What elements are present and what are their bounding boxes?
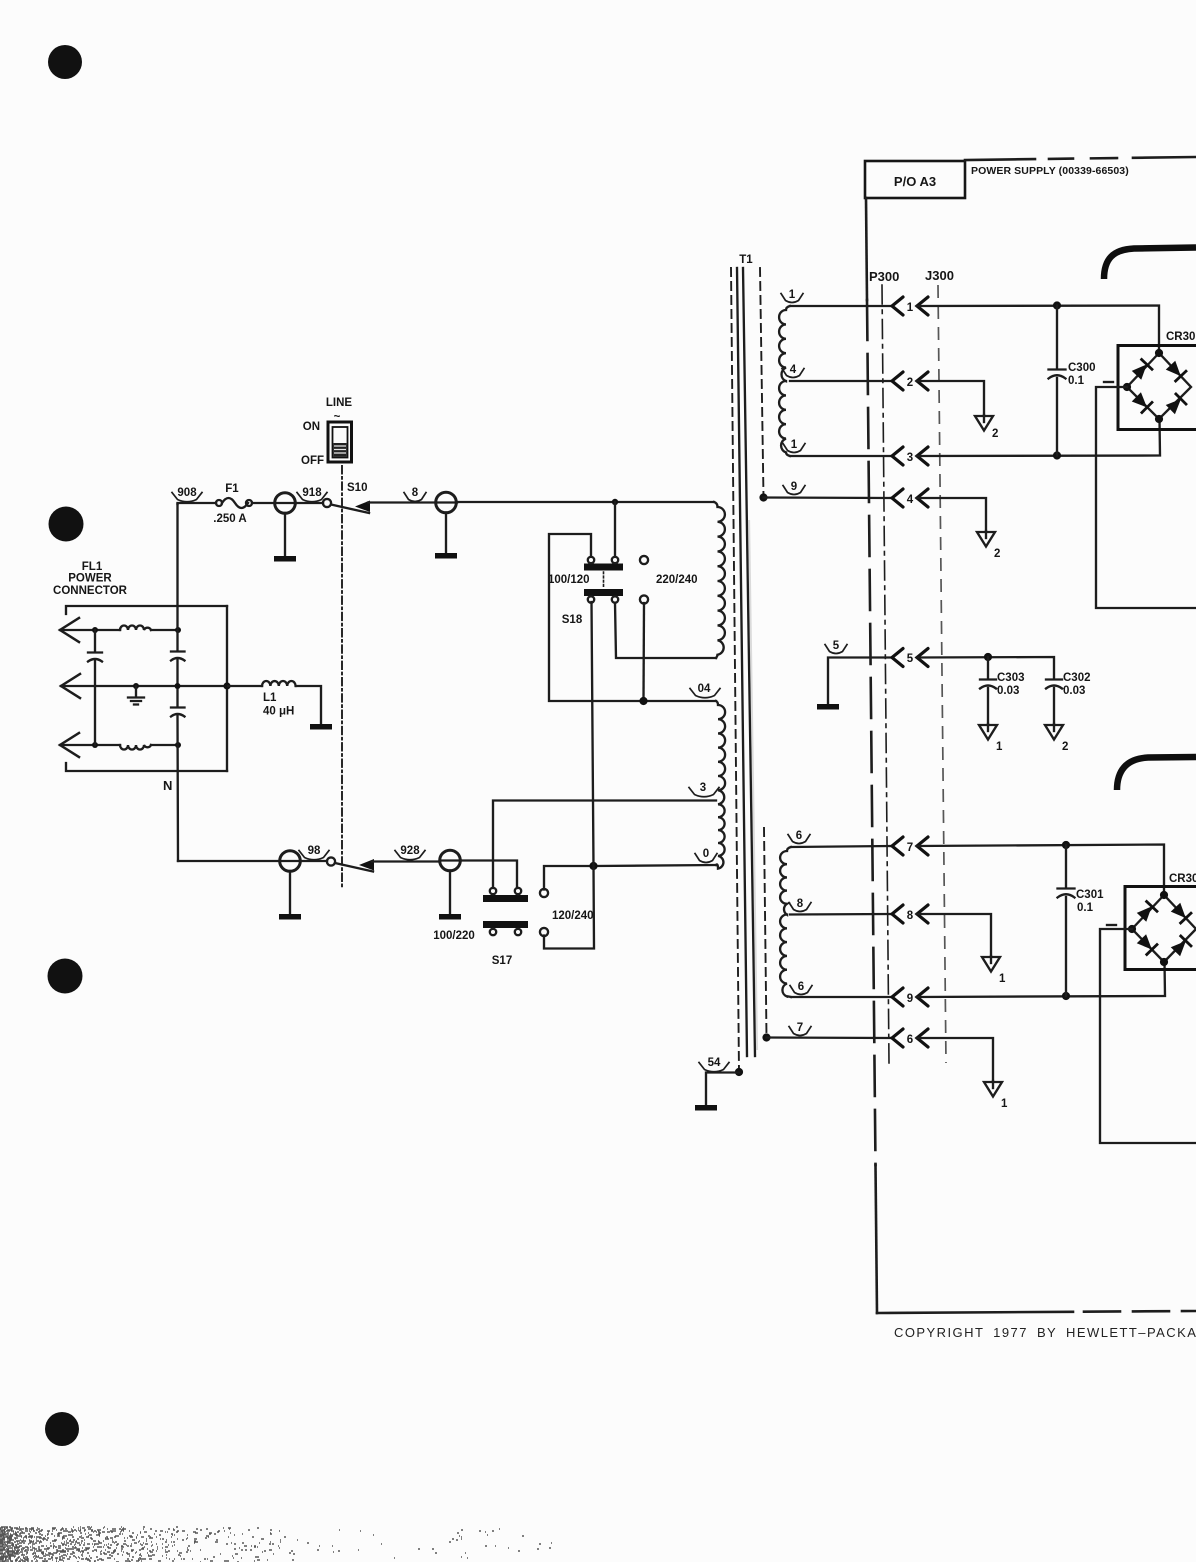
T1 secondary winding lower (6-8-6) — [780, 847, 791, 997]
svg-text:928: 928 — [400, 845, 420, 857]
ground bar terminal D — [439, 914, 461, 920]
inductor L1 40uH — [262, 681, 296, 686]
board border bottom dashed — [877, 1311, 1196, 1313]
120/240 contact pair — [540, 889, 548, 897]
diode CR301 upper-right — [1169, 901, 1192, 924]
ground bar 54 — [695, 1105, 717, 1111]
inductor FL1 top — [120, 626, 151, 631]
svg-text:LINE: LINE — [326, 397, 353, 409]
node shield/7 wire — [762, 1033, 770, 1041]
pin 6 — [892, 1029, 903, 1047]
svg-text:7: 7 — [907, 842, 913, 854]
svg-text:P/O A3: P/O A3 — [894, 174, 936, 189]
S17 top contacts — [490, 888, 496, 894]
wire pin1 to bridge — [917, 306, 1159, 354]
chassis ground C303 — [979, 724, 997, 740]
capacitor C302 — [1053, 688, 1055, 725]
svg-text:9: 9 — [791, 481, 797, 493]
svg-text:8: 8 — [907, 910, 914, 922]
fuse F1 .250A — [216, 500, 222, 506]
ground bar 5 — [817, 704, 839, 710]
terminal stud 918-left — [275, 493, 296, 514]
diode CR302 lower-left — [1130, 391, 1153, 414]
S10 upper fixed contact — [323, 499, 331, 507]
wire terminal D to S17 — [461, 861, 517, 889]
wire pin8 to chassis gnd — [917, 914, 991, 957]
svg-text:0.03: 0.03 — [1063, 685, 1085, 697]
wire sec2 tap8 to pin8 — [790, 913, 892, 916]
node line2/FL1 box edge — [223, 682, 230, 689]
capacitor C303 — [987, 657, 989, 725]
wire pin9 to bridge CR301 bottom — [917, 962, 1165, 997]
minus sign CR301 — [1107, 924, 1116, 926]
wire F1 to terminal — [252, 502, 275, 504]
pin 8 — [892, 905, 903, 923]
T1 core line left — [737, 268, 747, 1056]
svg-text:0.03: 0.03 — [997, 685, 1019, 697]
S18 bottom contacts — [588, 596, 594, 602]
svg-text:S18: S18 — [562, 614, 583, 626]
node line2/bus — [175, 683, 181, 689]
svg-text:CR30: CR30 — [1169, 873, 1196, 885]
svg-text:3: 3 — [700, 782, 706, 794]
T1 core line right — [743, 268, 755, 1056]
S18 mechanical link dotted — [603, 572, 605, 588]
chassis ground C302 — [1045, 724, 1063, 740]
220/240 contact pair S18 — [640, 556, 648, 564]
S18 top contacts — [588, 557, 594, 563]
S10 upper arrowhead — [355, 501, 370, 513]
svg-text:908: 908 — [177, 487, 197, 499]
chassis ground pin2 — [975, 415, 993, 431]
T1 shield dashed right lower — [764, 828, 767, 1037]
ground bar terminal C — [279, 914, 301, 920]
punch hole top-left — [48, 45, 82, 79]
diode CR301 lower-right — [1169, 935, 1192, 958]
punch hole 2 — [49, 507, 84, 542]
svg-text:1: 1 — [791, 439, 798, 451]
node CR301 top vertex — [1160, 891, 1168, 899]
capacitor C300 — [1056, 306, 1058, 456]
wire 9 to pin4 — [764, 496, 893, 499]
wire 0 line — [594, 865, 716, 866]
capacitor branch left vertical — [94, 630, 96, 745]
ground bar L1 — [310, 724, 332, 730]
node C301 top — [1062, 841, 1070, 849]
wire CR302 minus out — [1096, 387, 1196, 608]
wire line3 — [60, 744, 178, 746]
svg-text:6: 6 — [798, 981, 804, 993]
svg-text:98: 98 — [308, 845, 321, 857]
wire S10 to terminal B — [368, 501, 436, 503]
S10 upper blade — [331, 505, 369, 514]
chassis ground pin8 — [982, 956, 1000, 972]
svg-text:04: 04 — [698, 683, 711, 695]
earth ground FL1 — [128, 686, 144, 705]
terminal stud 98-left — [280, 851, 301, 872]
svg-text:100/120: 100/120 — [548, 574, 590, 586]
terminal B stem — [445, 513, 447, 555]
board border top dashed — [965, 157, 1196, 160]
node CR301 left vertex — [1128, 925, 1136, 933]
FL1 pin arrow line 3 — [60, 733, 79, 757]
node earth gnd — [133, 683, 139, 689]
T1 shield dashed left — [731, 268, 739, 1072]
svg-text:8: 8 — [797, 898, 804, 910]
wire S17 left contact up to 3-wire — [493, 801, 716, 889]
main left bus vertical — [176, 504, 179, 861]
bottom line: bus corner to terminal C — [178, 860, 279, 862]
svg-text:0.1: 0.1 — [1068, 375, 1085, 387]
punch hole 3 — [48, 959, 83, 994]
node CR302 top vertex — [1155, 349, 1163, 357]
node CR302 bottom vertex — [1155, 415, 1163, 423]
svg-text:CONNECTOR: CONNECTOR — [53, 585, 128, 597]
pin 7 — [892, 837, 903, 855]
svg-text:3: 3 — [907, 452, 913, 464]
svg-text:C303: C303 — [997, 672, 1025, 684]
switch S17 bottom bar — [483, 921, 528, 928]
wire sec2 to pin7 — [791, 846, 892, 847]
diode CR302 upper-right — [1164, 359, 1187, 382]
pin 5 — [892, 649, 903, 667]
CR301 diamond — [1132, 895, 1196, 962]
node 04/220-240 — [639, 697, 647, 705]
node C301 bottom — [1062, 992, 1070, 1000]
wire sec1 end to pin3 — [790, 455, 892, 457]
switch S18 bottom bar — [584, 589, 623, 596]
wire through terminal — [275, 502, 296, 504]
T1 secondary winding upper (1-4-1) — [779, 306, 790, 456]
ground bar terminal A — [274, 556, 296, 562]
terminal C stem — [289, 871, 291, 915]
svg-text:2: 2 — [907, 377, 913, 389]
svg-text:0.1: 0.1 — [1077, 902, 1094, 914]
T1 primary winding 1 (02) — [714, 502, 725, 658]
pin 4 — [892, 489, 903, 507]
wire S18 top-right to 02 node — [614, 502, 616, 557]
node line3/cap branch — [92, 742, 98, 748]
svg-text:.250 A: .250 A — [213, 513, 246, 525]
capacitor bus upper — [171, 652, 185, 661]
thick cable arc lower right — [1117, 757, 1196, 790]
svg-text:2: 2 — [992, 428, 998, 440]
S10 lower blade — [335, 863, 373, 872]
wire pin5 to caps — [917, 657, 1054, 678]
S10 lower fixed contact — [327, 857, 335, 865]
svg-text:0: 0 — [703, 848, 709, 860]
svg-text:8: 8 — [412, 487, 419, 499]
svg-text:1: 1 — [999, 973, 1006, 985]
T1 primary winding 2 (04-3-0) — [716, 701, 725, 869]
svg-text:S17: S17 — [492, 955, 512, 967]
switch S17 top bar — [483, 895, 528, 902]
S10 boundary dash-dot line — [341, 466, 343, 888]
wire 54 to ground — [706, 1073, 739, 1107]
S17 bottom contacts — [490, 929, 496, 935]
capacitor bus lower — [171, 708, 185, 717]
inductor FL1 bottom — [120, 745, 151, 750]
terminal stud 8 — [436, 492, 457, 513]
svg-text:P300: P300 — [869, 269, 899, 284]
bridge rectifier CR302 package box — [1118, 346, 1196, 430]
wire line2 — [61, 685, 228, 687]
svg-text:OFF: OFF — [301, 455, 324, 467]
node CR301 bottom vertex — [1160, 958, 1168, 966]
chassis ground pin4 — [977, 531, 995, 547]
terminal stem — [284, 513, 286, 557]
node line1/cap branch — [92, 627, 98, 633]
wire line2 to L1 — [228, 685, 262, 687]
svg-text:FL1: FL1 — [82, 561, 103, 573]
pin 3 — [892, 447, 903, 465]
terminal stud 928 — [440, 850, 461, 871]
T1 shield dashed right upper — [760, 268, 764, 497]
wire pin6 to chassis gnd — [917, 1038, 993, 1082]
wire S18 top-left loop to 04 wire — [549, 534, 716, 701]
LINE toggle switch icon — [328, 422, 352, 462]
node C300 top — [1053, 301, 1061, 309]
svg-text:220/240: 220/240 — [656, 574, 698, 586]
svg-text:N: N — [163, 778, 172, 793]
node S18 tap on 02 — [612, 499, 618, 505]
FL1 box bracket — [66, 606, 227, 771]
wire 220/240 bottom contact down to 04 wire — [642, 603, 645, 701]
bridge rectifier CR301 package box — [1125, 887, 1196, 970]
P/O A3 box — [865, 161, 965, 198]
FL1 pin arrow line 2 — [61, 674, 80, 698]
board border left: solid then long-dash — [866, 198, 867, 300]
capacitor C301 — [1065, 845, 1067, 996]
svg-text:T1: T1 — [739, 254, 753, 266]
svg-text:918: 918 — [302, 487, 322, 499]
wire sec2 end to pin9 — [791, 996, 892, 998]
wire terminal C to S10 lower contact — [301, 860, 327, 862]
diode CR301 upper-left — [1135, 901, 1158, 924]
wire S18 bottom-left long vertical — [544, 602, 594, 949]
wire sec1 to pin1 — [790, 305, 892, 307]
node shield/9 wire — [759, 493, 767, 501]
svg-text:4: 4 — [790, 364, 797, 376]
node line3/bus — [175, 742, 181, 748]
svg-text:C300: C300 — [1068, 362, 1096, 374]
wire 5 ground stub — [828, 658, 892, 705]
svg-text:1: 1 — [1001, 1098, 1008, 1110]
wire line1 — [60, 629, 178, 631]
punch hole 4 — [45, 1412, 79, 1446]
pin 2 — [892, 372, 903, 390]
wire S10 lower to terminal D — [372, 860, 440, 862]
svg-text:9: 9 — [907, 993, 913, 1005]
wire 120/240 top contact to 0-wire — [544, 866, 594, 890]
terminal D stem — [449, 871, 451, 916]
svg-text:S10: S10 — [347, 482, 367, 494]
svg-text:1: 1 — [996, 741, 1003, 753]
wire pin3 to bridge bottom — [917, 419, 1160, 456]
diode CR301 lower-left — [1135, 933, 1158, 956]
T1 core scan smear — [749, 520, 757, 1050]
wire sec1 tap4 to pin2 — [790, 380, 892, 382]
svg-text:COPYRIGHT 1977 BY HEWLETT–PACK: COPYRIGHT 1977 BY HEWLETT–PACKA — [894, 1325, 1196, 1340]
svg-text:J300: J300 — [925, 268, 954, 283]
svg-text:6: 6 — [907, 1034, 913, 1046]
svg-text:5: 5 — [833, 640, 840, 652]
wire CR301 minus out — [1100, 929, 1196, 1143]
diode CR302 upper-left — [1130, 359, 1153, 382]
svg-text:6: 6 — [796, 830, 802, 842]
svg-text:POWER: POWER — [68, 573, 112, 585]
P300 dash-dot line — [882, 285, 889, 1063]
svg-text:2: 2 — [1062, 741, 1068, 753]
wire through terminal D — [440, 859, 461, 861]
svg-text:1: 1 — [789, 289, 796, 301]
svg-text:C302: C302 — [1063, 672, 1091, 684]
svg-text:2: 2 — [994, 548, 1000, 560]
svg-text:54: 54 — [708, 1057, 721, 1069]
svg-text:POWER SUPPLY (00339-66503): POWER SUPPLY (00339-66503) — [971, 165, 1129, 177]
diode CR302 lower-right — [1164, 393, 1187, 416]
svg-text:L1: L1 — [263, 692, 277, 704]
wire L1 to ground — [296, 686, 321, 725]
node C300 bottom — [1053, 451, 1061, 459]
ground bar terminal B — [435, 553, 457, 559]
wire 908 corner to F1 — [178, 503, 217, 504]
svg-text:F1: F1 — [225, 483, 239, 495]
FL1 pin arrow line 1 — [60, 618, 79, 642]
wire terminal to S10 contact — [296, 502, 323, 504]
wire through terminal B — [436, 501, 457, 503]
svg-text:100/220: 100/220 — [433, 930, 475, 942]
svg-text:ON: ON — [303, 421, 320, 433]
node CR302 left vertex — [1123, 383, 1131, 391]
wire 02 line — [457, 501, 714, 503]
S10 lower arrowhead — [359, 859, 374, 871]
svg-text:5: 5 — [907, 653, 914, 665]
thick cable arc upper right — [1104, 248, 1196, 280]
wire 7 to pin6 — [767, 1036, 893, 1039]
node line1/bus — [175, 627, 181, 633]
J300 dashed line — [938, 285, 946, 1063]
node 0-wire / S18 branch — [589, 862, 597, 870]
wire through terminal C — [279, 860, 301, 862]
chassis ground pin6 — [984, 1081, 1002, 1097]
CR302 diamond — [1127, 353, 1191, 419]
svg-text:CR30: CR30 — [1166, 331, 1195, 343]
svg-text:4: 4 — [907, 494, 914, 506]
minus sign CR302 — [1104, 381, 1113, 383]
wire pin4 to chassis gnd — [917, 498, 986, 532]
wire S18 bottom-right to winding1 bottom — [615, 603, 716, 658]
node C303 — [984, 653, 992, 661]
switch S18 top bar — [584, 564, 623, 571]
pin 1 — [892, 297, 903, 315]
wire pin2 to chassis gnd — [917, 381, 984, 416]
pin 9 — [892, 988, 903, 1006]
svg-text:C301: C301 — [1076, 889, 1104, 901]
svg-text:7: 7 — [797, 1022, 803, 1034]
wire pin7 to bridge CR301 — [917, 845, 1164, 896]
svg-text:40 μH: 40 μH — [263, 706, 294, 718]
capacitor FL1 left — [88, 653, 102, 662]
svg-text:1: 1 — [907, 302, 914, 314]
scanner speckle noise band bottom-left — [0, 1527, 552, 1562]
FL1 box right edge — [226, 606, 228, 771]
svg-text:120/240: 120/240 — [552, 910, 594, 922]
node shield/54 wire — [735, 1068, 743, 1076]
